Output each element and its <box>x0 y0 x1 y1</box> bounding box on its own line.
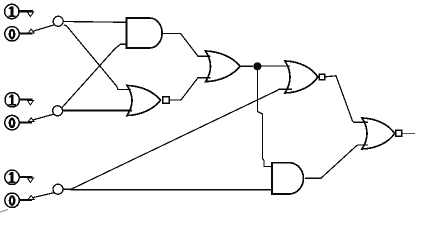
switch SW3 terminal 0 contact triangle <box>28 196 34 200</box>
wire node A to AND U1 top input <box>63 21 126 24</box>
NOR gate U2 output bubble <box>163 97 170 104</box>
wire junction to NOR U4 top input <box>262 65 291 67</box>
switch SW1 terminal 1 contact line <box>19 10 33 12</box>
wire node B diagonal to AND U1 bottom input <box>62 44 126 107</box>
node C circle (input 3) <box>53 184 63 194</box>
switch SW1 terminal 1 contact triangle <box>27 12 33 17</box>
wire AND U5 output to NOR U6 bottom input <box>305 145 368 178</box>
switch SW1 terminal 0 circle <box>5 27 19 41</box>
switch SW2 terminal 1 contact triangle <box>27 100 33 105</box>
wire OR U3 output to junction <box>240 65 253 67</box>
switch SW2 terminal 0 contact triangle <box>28 118 34 122</box>
switch SW3 terminal 1 contact triangle <box>27 178 33 183</box>
wire node C to AND U5 bottom input <box>71 189 273 191</box>
switch SW2 arm to node B <box>33 114 53 120</box>
switch SW2 terminal 1 contact line <box>19 98 32 100</box>
AND gate U1 <box>127 18 163 48</box>
wire NOR U4 output to NOR U6 top input <box>325 76 368 123</box>
NOR gate U6 body <box>362 118 395 149</box>
switch SW2 terminal 0 circle <box>5 115 19 129</box>
node A circle (input 1) <box>53 16 63 26</box>
wire NOR U6 output <box>402 132 415 134</box>
switch SW1 terminal 0 contact triangle <box>28 29 34 33</box>
wire node B to NOR U2 bottom input <box>63 110 132 112</box>
switch SW3 terminal 1 circle <box>5 170 19 184</box>
wire node A diagonal to NOR U2 top input <box>64 25 131 90</box>
wire NOR U2 output to OR U3 bottom input <box>168 78 210 100</box>
junction dot <box>253 62 261 70</box>
wire node C diagonal to NOR U4 bottom input <box>71 89 293 189</box>
switch SW1 terminal 1 circle <box>5 4 19 18</box>
switch SW3 terminal 1 contact line <box>19 176 32 178</box>
OR gate U3 body <box>206 51 241 82</box>
switch SW3 terminal 0 contact line <box>19 199 32 201</box>
node B circle (input 2) <box>53 106 63 116</box>
wire junction down to AND U5 top input <box>257 70 272 167</box>
switch SW1 arm to node A <box>34 25 54 31</box>
wire node C to branch <box>63 188 71 190</box>
NOR gate U4 output bubble <box>319 74 325 80</box>
scan artifact mark bottom left <box>0 210 8 213</box>
NOR gate U6 output bubble <box>396 130 402 136</box>
NOR gate U4 body <box>285 61 318 93</box>
switch SW1 terminal 0 contact line <box>19 32 32 34</box>
switch SW3 terminal 0 circle <box>5 193 19 207</box>
NOR gate U2 body <box>127 86 161 116</box>
switch SW3 arm to node C <box>33 193 54 198</box>
wire AND U1 output to OR U3 top input <box>162 33 210 56</box>
switch SW2 terminal 1 circle <box>5 93 19 107</box>
AND gate U5 <box>272 163 303 194</box>
switch SW2 terminal 0 contact line <box>19 121 32 123</box>
